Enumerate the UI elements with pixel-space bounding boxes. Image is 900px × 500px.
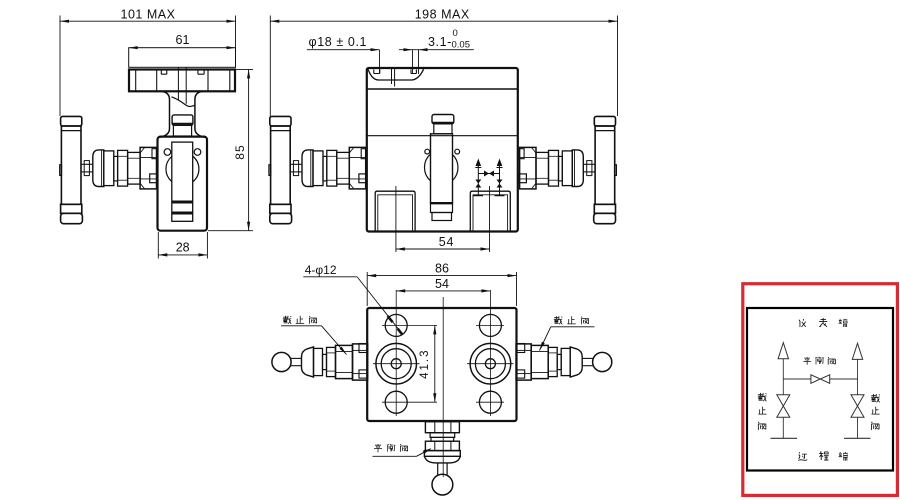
- svg-text:41.3: 41.3: [419, 349, 431, 379]
- svg-text:φ18 ± 0.1: φ18 ± 0.1: [309, 35, 368, 49]
- svg-text:0: 0: [453, 28, 458, 39]
- svg-text:85: 85: [233, 144, 247, 159]
- svg-text:101 MAX: 101 MAX: [121, 8, 176, 22]
- svg-text:3.1-: 3.1-: [428, 35, 452, 49]
- svg-text:198 MAX: 198 MAX: [415, 8, 470, 22]
- svg-text:54: 54: [435, 277, 449, 291]
- svg-text:0.05: 0.05: [452, 39, 471, 50]
- svg-text:61: 61: [176, 33, 190, 47]
- svg-text:4-φ12: 4-φ12: [305, 263, 337, 277]
- svg-text:28: 28: [176, 241, 190, 255]
- svg-text:54: 54: [439, 235, 455, 249]
- svg-text:86: 86: [435, 262, 449, 276]
